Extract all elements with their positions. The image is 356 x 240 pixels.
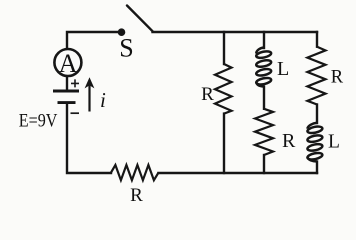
wire: branch 3 top lead [316,32,318,47]
wire: branch 2 top lead [263,32,265,48]
svg-text:L: L [328,132,340,153]
wire: branch 3 middle lead [316,105,318,124]
ammeter U1 circle [54,49,81,76]
svg-text:R: R [130,185,143,204]
wire: branch 1 bottom lead [223,114,225,173]
svg-text:R: R [282,130,296,152]
switch S blade [127,6,153,32]
resistor R branch 2 [255,109,273,155]
svg-text:R: R [201,84,214,105]
wire: ammeter top to switch contact [67,32,119,48]
svg-text:i: i [100,88,106,112]
svg-text:S: S [119,33,133,62]
wire: branch 3 bottom lead [316,162,318,174]
inductor L branch 3 [307,123,323,162]
inductor L branch 2 [256,48,272,87]
wire: bottom resistor to bottom-right corner [159,172,318,174]
resistor R bottom (horizontal) [111,165,159,180]
battery E bottom plate (-) [58,101,76,104]
switch S contact dot [118,28,126,36]
resistor R branch 1 [215,64,232,114]
resistor R branch 3 [307,47,325,105]
svg-text:L: L [277,58,289,80]
current arrow i head [85,77,95,88]
wire: branch 2 middle lead [263,87,265,109]
current arrow i shaft [88,86,90,112]
wire: ammeter bottom to battery top [66,77,68,90]
svg-text:E=9V: E=9V [19,111,58,131]
wire: battery bottom to bottom-left corner, then to bottom resistor [67,104,111,173]
svg-text:R: R [331,68,344,88]
wire: branch 1 top lead [223,32,225,64]
wire: branch 2 bottom lead [263,155,265,173]
svg-text:A: A [59,49,78,78]
wire: switch hinge to top-right corner [153,31,318,33]
battery E top plate (+) [53,90,79,93]
battery minus sign [71,112,80,114]
battery plus sign [71,79,79,87]
